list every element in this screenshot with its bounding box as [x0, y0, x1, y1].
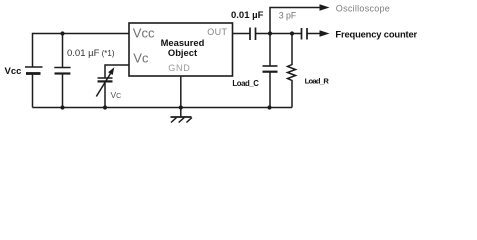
svg-text:0.01 µF (*1): 0.01 µF (*1): [67, 48, 115, 59]
op block U1 Measured Object: [129, 23, 233, 76]
node bottom Load_C junction: [267, 105, 271, 109]
node bottom Vc junction: [103, 105, 107, 109]
wire oscilloscope branch: [270, 8, 321, 34]
ground: [171, 117, 192, 123]
svg-text:Vc: Vc: [133, 50, 149, 65]
svg-text:Object: Object: [168, 47, 197, 58]
node Load_R top junction: [290, 31, 294, 35]
wire Vc branch lower: [104, 83, 106, 108]
wire branch2 lower: [62, 75, 64, 108]
svg-text:Oscilloscope: Oscilloscope: [336, 3, 390, 13]
wire left branch upper: [32, 33, 34, 67]
wire Load_R branch upper: [291, 34, 293, 64]
wire Load_C branch lower: [269, 73, 271, 108]
wire top rail: [33, 33, 130, 35]
capacitor C3 3pF: [302, 28, 308, 40]
wire node A segment: [256, 33, 301, 35]
svg-text:Vcc: Vcc: [5, 66, 22, 77]
svg-text:0.01 µF: 0.01 µF: [231, 10, 264, 21]
variable capacitor Vc: [96, 67, 114, 96]
node top rail / C1 junction: [60, 31, 64, 35]
node bottom GND junction: [179, 105, 183, 109]
wire to frequency counter: [308, 33, 321, 35]
wire left branch lower: [32, 75, 34, 108]
wire Load_C branch upper: [269, 34, 271, 67]
node A: [268, 31, 272, 35]
svg-text:OUT: OUT: [207, 27, 227, 37]
svg-text:Load_C: Load_C: [232, 79, 259, 88]
wire Vc branch to VC pin: [105, 65, 129, 78]
capacitor C2 0.01uF coupling: [250, 28, 256, 41]
wire GND pin: [180, 76, 182, 117]
capacitor Load_C: [263, 66, 278, 72]
wire OUT: [233, 33, 250, 35]
svg-text:Frequency counter: Frequency counter: [335, 28, 417, 39]
svg-text:GND: GND: [168, 63, 190, 73]
wire bottom rail: [33, 107, 293, 109]
svg-text:Vcc: Vcc: [133, 25, 155, 40]
svg-text:3 pF: 3 pF: [279, 11, 297, 21]
resistor Load_R: [288, 63, 296, 82]
svg-text:Load_R: Load_R: [305, 77, 330, 86]
node bottom C1 junction: [60, 105, 64, 109]
wire branch2 upper: [62, 34, 64, 68]
capacitor C1 0.01uF: [54, 68, 70, 74]
wire Load_R branch lower: [291, 82, 293, 108]
arrow to oscilloscope: [320, 4, 330, 11]
arrow to frequency counter: [320, 30, 330, 37]
capacitor C_Vcc: [25, 67, 43, 74]
